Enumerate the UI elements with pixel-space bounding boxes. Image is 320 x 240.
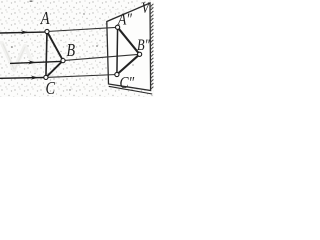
- vertex C'': [115, 72, 119, 76]
- triangle ABC edges: [47, 32, 63, 61]
- vertex A: [45, 29, 49, 33]
- svg-text:B: B: [67, 42, 76, 61]
- vertex C: [44, 75, 48, 79]
- incoming arrow to B: [10, 60, 61, 64]
- triangle A''B''C'' edges: [118, 27, 140, 54]
- projection ray C->C'': [46, 75, 117, 78]
- screen V (board in perspective): [107, 3, 151, 91]
- svg-text:A″: A″: [117, 10, 132, 29]
- vertex B: [61, 59, 65, 63]
- screen bottom thickness line: [109, 86, 153, 94]
- svg-text:B″: B″: [137, 37, 151, 55]
- svg-text:C″: C″: [120, 74, 135, 93]
- projection ray A->A'': [47, 27, 118, 31]
- vertex A'': [116, 25, 120, 29]
- paper background with halftone dots: [0, 0, 154, 97]
- faint crease streaks bottom-left: [2, 43, 36, 71]
- projection ray B->B'': [63, 54, 140, 60]
- svg-text:C: C: [46, 77, 57, 97]
- scan noise specks: [11, 1, 133, 91]
- hatching on right edge of screen: [151, 4, 154, 90]
- vertex B'': [138, 52, 142, 56]
- incoming arrow to C: [0, 76, 44, 80]
- svg-text:A: A: [40, 7, 50, 28]
- incoming arrow to A: [0, 30, 45, 34]
